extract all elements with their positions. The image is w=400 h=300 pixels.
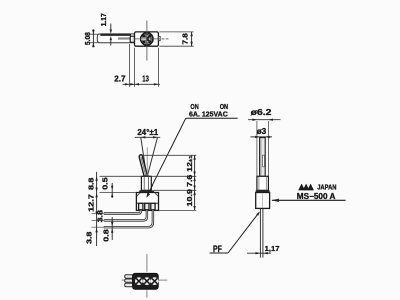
angle dimension line (135, 136, 161, 138)
side view lever base blob (143, 175, 149, 178)
right dimension line (194, 155, 196, 210)
dimension 6.2 extension lines (256, 121, 258, 176)
top view bushing inner ring (143, 35, 152, 44)
svg-text:0.5: 0.5 (103, 177, 110, 190)
dimension 7.8 line and arrows (191, 32, 193, 46)
bottom view pin tabs (125, 275, 133, 279)
label underline (186, 117, 238, 119)
side view lever centerline (146, 147, 148, 176)
right view bushing (257, 176, 269, 190)
leader arrowhead (146, 193, 150, 198)
top view right tab (158, 37, 160, 41)
side view bushing (141, 176, 151, 190)
bottom view horizontal centerline (122, 279, 132, 281)
top view vertical centerline (146, 21, 148, 61)
top view lever slot (141, 37, 147, 41)
top view horizontal centerline (134, 38, 161, 40)
right view lever (260, 138, 266, 177)
leader line to body (148, 118, 186, 195)
right view lever slot (263, 155, 265, 167)
dimension 5.08 extension lines (90, 33, 100, 35)
bottom view terminal circles (135, 277, 159, 285)
side view bushing inner lines (143, 177, 145, 190)
side view terminal divider (137, 202, 158, 204)
top view body rectangle (135, 32, 159, 46)
right view pin (259, 208, 261, 257)
side view lever (139, 155, 147, 177)
right view body (256, 193, 270, 209)
svg-text:12.7: 12.7 (88, 194, 95, 212)
PF leader (228, 213, 259, 253)
svg-text:24°±1: 24°±1 (137, 128, 158, 137)
side view flange (139, 190, 154, 192)
svg-text:3.8: 3.8 (87, 231, 94, 244)
svg-text:13: 13 (142, 74, 149, 83)
svg-text:7.6: 7.6 (187, 175, 194, 187)
top view lever flat dark band (1.17 feature) (100, 34, 131, 36)
side view body corner marks (137, 193, 140, 196)
dimension 1.17 line and arrows (110, 24, 112, 30)
svg-text:3.8: 3.8 (98, 210, 105, 223)
right extension lines (142, 154, 196, 156)
svg-text:5.08: 5.08 (85, 32, 92, 45)
angle indicator lines 24 deg (141, 138, 147, 178)
svg-text:1.17: 1.17 (101, 13, 108, 26)
dimension arrows at 129.4 / 134.5 / 158.4 (125, 83, 129, 85)
left dimension column 2 (111, 183, 113, 198)
dimension 6.2 line and arrows (248, 119, 281, 121)
side view lever inner line (141, 157, 146, 176)
dimension 2.7 / 13 line (123, 83, 161, 85)
dimension 2.7 / 13 extension lines (128, 44, 130, 87)
dimension 5.08 line and arrows (92, 29, 94, 47)
svg-text:10.9: 10.9 (187, 189, 194, 207)
leader tail into body (147, 185, 153, 196)
terminal pin 1 (104, 210, 141, 214)
top view centre mark (146, 38, 148, 40)
svg-text:MS−500 A: MS−500 A (297, 192, 336, 201)
svg-text:7.8: 7.8 (182, 33, 189, 44)
angle arrows (141, 136, 146, 138)
svg-text:ø6.2: ø6.2 (251, 108, 272, 117)
top view lever rod outline (97, 34, 134, 43)
label underline and arrow (272, 199, 346, 201)
top view bushing X wedges (143, 35, 150, 42)
dimension 7.8 extension lines (159, 31, 193, 33)
top view clevis block (130, 36, 134, 42)
terminal pin 3 (104, 210, 153, 227)
bottom view body (133, 273, 159, 289)
svg-text:2.7: 2.7 (114, 74, 125, 83)
PF leader arrowhead (256, 211, 260, 215)
svg-text:8.8: 8.8 (88, 177, 95, 190)
right view flange (256, 190, 270, 192)
svg-text:ø3: ø3 (257, 127, 267, 136)
svg-text:1,17: 1,17 (265, 244, 280, 253)
left extension lines (100, 175, 142, 177)
left dimension column 1 (96, 172, 98, 246)
top view lever mid shading band (118, 37, 131, 39)
side view terminal posts (139, 203, 143, 210)
svg-text:12±1: 12±1 (187, 155, 194, 172)
PF underline (210, 252, 228, 254)
svg-text:JAPAN: JAPAN (317, 182, 336, 191)
svg-text:0.8: 0.8 (104, 229, 111, 242)
bottom view vertical centerline (146, 254, 148, 272)
maker logo triangles (298, 184, 314, 191)
top view bushing outer circle (141, 33, 153, 45)
side view body (136, 193, 158, 211)
svg-text:6A. 125VAC: 6A. 125VAC (189, 109, 228, 118)
terminal pin 2 (104, 210, 147, 220)
dimension 3 line and arrows (251, 136, 273, 138)
dimension 1.17 line and arrows (247, 252, 271, 254)
